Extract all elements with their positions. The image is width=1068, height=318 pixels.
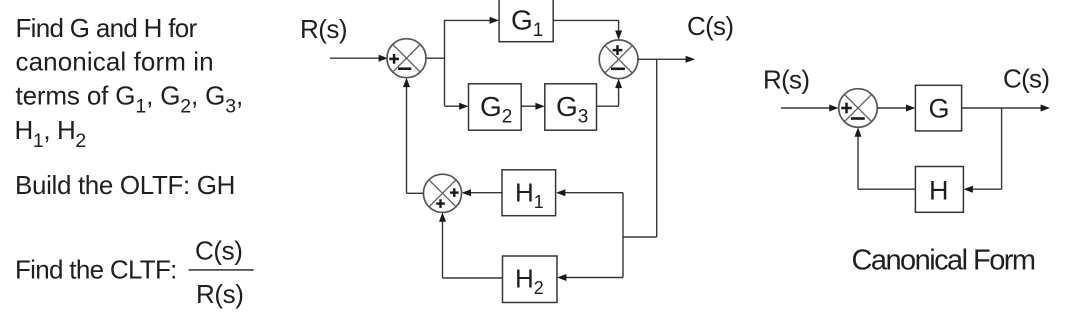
wire: bottom branch into G2 [445, 103, 469, 110]
wire: feed into H1 [556, 189, 623, 196]
wire: feed into H2 [557, 274, 623, 281]
wire: H2 output left and up into S3 [439, 212, 503, 278]
svg-text:R(s): R(s) [196, 279, 244, 309]
svg-text:Find the CLTF:: Find the CLTF: [15, 254, 177, 284]
wire: S1 output to branch point [426, 57, 445, 59]
summing junction S3 [423, 174, 461, 212]
svg-text:Find G and H for: Find G and H for [16, 13, 198, 43]
svg-text:Build the OLTF: GH: Build the OLTF: GH [15, 170, 235, 200]
svg-text:C(s): C(s) [687, 11, 733, 41]
svg-text:H: H [929, 175, 949, 205]
wire: branch vertical [444, 20, 446, 106]
wire: feedback vertical between H1 and H2 levels [622, 193, 624, 278]
wire: G3 output to S2 bottom [597, 79, 623, 107]
svg-text:C(s): C(s) [195, 235, 243, 265]
block G3 [545, 84, 597, 130]
wire: top branch into G1 [445, 17, 500, 24]
svg-text:C(s): C(s) [1003, 64, 1049, 94]
block H canonical [915, 167, 963, 213]
wire: H1 output into S3 [462, 189, 502, 196]
wire: tap across [623, 236, 657, 238]
summing junction S2 [599, 40, 638, 79]
svg-text:R(s): R(s) [300, 14, 347, 44]
block H2 [503, 256, 558, 303]
svg-text:canonical form in: canonical form in [16, 47, 214, 77]
svg-text:R(s): R(s) [763, 65, 809, 95]
wire: G1 output to S2 top [553, 20, 631, 40]
wire: S3 output left and up into S1 [403, 78, 423, 194]
wire: S2 output to C(s) [638, 56, 695, 63]
fraction bar [189, 269, 254, 271]
block G1 [499, 0, 553, 42]
wire: feedback tap down [656, 59, 658, 237]
summing junction S1 [387, 39, 426, 78]
wire: G output to C(s) [962, 105, 1050, 112]
wire: H output left and up into S4 [855, 127, 916, 189]
block H1 [502, 170, 556, 216]
wire: canonical feedback tap [964, 108, 1002, 193]
wire: S4 output into G [877, 105, 915, 112]
svg-text:G: G [929, 93, 950, 123]
summing junction S4 [839, 89, 878, 128]
svg-text:Canonical Form: Canonical Form [852, 245, 1035, 277]
block G canonical [915, 85, 961, 131]
wire: G2 to G3 [521, 103, 545, 110]
wire: canonical input to S4 [781, 105, 839, 112]
block G2 [469, 84, 522, 130]
wire: input to summer S1 [330, 55, 388, 62]
